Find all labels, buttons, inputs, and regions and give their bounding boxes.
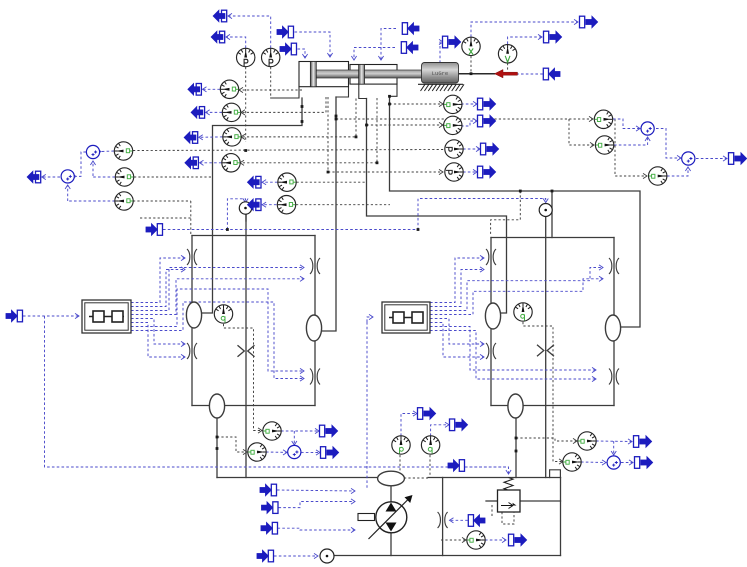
port output row3 [184, 132, 198, 144]
sig port in3 to cyl [378, 29, 396, 61]
sig ctrl1 o8 [131, 302, 304, 381]
gauge mid M2 [277, 196, 295, 214]
sig gauge row4 to out [200, 160, 222, 165]
wire cyl1 right chamber to bridge1 volume L [202, 98, 302, 313]
sig ctrl1 o6 [131, 323, 185, 360]
meas branch to gauge R2 [569, 119, 594, 148]
meas gauge q2 tap [523, 322, 563, 464]
wire bridge2 center feed [545, 216, 547, 478]
valve bridge1 center [238, 345, 255, 357]
port output 2 [211, 31, 225, 43]
sig sum1 to sum2 [72, 152, 86, 179]
sig ctrl2 o2 [430, 267, 484, 307]
sig X gauge to out [471, 19, 578, 37]
gauge bridge2 q [514, 303, 532, 321]
sum junction S4 [682, 152, 695, 165]
meas gauge P2 tap [270, 67, 272, 98]
sig gauge R4 out [463, 169, 477, 174]
meas relief pilot 2 [491, 505, 493, 518]
meas chamber1 to gauge row1 [239, 87, 302, 92]
wire bypass branch [442, 478, 444, 556]
gauge pump q [421, 436, 439, 454]
wire bridge1 bottom rail [192, 405, 315, 407]
port bypass cmd [468, 515, 485, 527]
sig sum1 chain [97, 149, 114, 154]
controller block 1 [82, 300, 131, 333]
sig gauge B2 out [266, 450, 287, 455]
port force input [543, 68, 560, 80]
sig sum6 out [621, 460, 633, 465]
wire relief inlet stub [486, 500, 498, 502]
sig gauge B to sum2 [93, 176, 115, 178]
gauge right R4 [445, 163, 463, 181]
sig bypass gauge out [485, 537, 506, 542]
sig port in2 to cyl [298, 49, 308, 58]
sig gaugeRB out [614, 137, 650, 145]
sig ctrl2 in [367, 314, 373, 322]
gauge right R3 [445, 140, 463, 158]
volume pump top [378, 471, 405, 486]
sig gaugeP1 to port out2 [226, 34, 246, 48]
wire relief tank box [550, 470, 561, 478]
port output row1 [188, 83, 202, 95]
wire cyl2 chamber to bridge2 volume L [367, 99, 507, 314]
gauge row3 [223, 128, 241, 146]
wire bridge2 left rail [490, 238, 492, 406]
sig gauge R5 to sum6 [611, 441, 616, 455]
meas chamber3 to gauge row3 [241, 99, 356, 140]
volume bridge2 tank [508, 394, 523, 418]
sig relief cmd [465, 466, 509, 468]
meas tap right y104 [390, 101, 444, 106]
sig V gauge to out [508, 34, 542, 44]
sig ctrl2 o5 [430, 319, 484, 347]
speed source [320, 549, 334, 563]
wire bridge2 right rail [613, 238, 615, 406]
sum junction S5 [288, 445, 301, 458]
port input 1 [277, 26, 294, 38]
volume bridge2 R [605, 315, 620, 341]
sig ctrl1 in [23, 313, 79, 318]
meas tap right y126 [367, 122, 444, 127]
port pump ctl2 [261, 502, 278, 514]
port gauge R6 sink [247, 199, 261, 211]
gauge pressure P2 [262, 48, 280, 66]
sig port in1 to cyl [295, 32, 333, 57]
sig sum5 out [301, 450, 320, 455]
gauge cluster RA [594, 110, 612, 128]
controller block 2 [382, 302, 430, 333]
sig gauge R1 out [461, 101, 477, 106]
wire tank2 rail [334, 555, 561, 557]
port output R2 [478, 115, 496, 127]
sig gauge row2 to out [206, 110, 222, 115]
gauge left B2 [115, 168, 133, 186]
wire relief tank drop [560, 478, 562, 556]
gauge bridge1 q [214, 305, 232, 323]
wire cyl2 skirt left wing [359, 84, 367, 99]
sig gauge R2 out [461, 118, 477, 126]
port output pump q [450, 419, 468, 431]
meas tank2 tap to gauge R5 [516, 438, 577, 444]
wire rod link [397, 73, 422, 75]
sig gauge R3 out [463, 146, 480, 151]
gauge bottom R6 [563, 453, 581, 471]
port output R5 [634, 436, 652, 448]
sig LuGre to out [439, 39, 443, 63]
port supply input [146, 224, 163, 236]
port output xtop [580, 16, 598, 28]
wire bridge2 tank drop [515, 414, 517, 478]
port output R4 [478, 166, 496, 178]
svg-text:LuGre: LuGre [432, 70, 449, 77]
sig pump gauge q out [431, 422, 449, 436]
port output left sum [27, 171, 41, 183]
port pump ctl1 [260, 484, 277, 496]
port output sum4 [729, 153, 747, 165]
meas bypass tap [441, 537, 466, 542]
port output v [544, 31, 562, 43]
meas gauge P1 tap [245, 67, 247, 142]
meas branch to gauge R3 [615, 119, 647, 179]
wire cyl1 skirt right wing [336, 87, 349, 97]
port gauge R5 sink [247, 176, 261, 188]
port output row2 [191, 106, 205, 118]
gauge right R2 [444, 116, 462, 134]
sig gauge R6b out [581, 460, 606, 465]
sig circle1 branch [227, 199, 248, 230]
sig sum2 to out [42, 174, 60, 179]
sig pump ctl2 [279, 499, 356, 508]
flow source 1 [239, 202, 251, 214]
orifice bridge1 BL [187, 343, 197, 359]
port pump ctl3 [261, 522, 278, 534]
sig sum2 bottom in [65, 185, 70, 201]
sig gauge R5 to out [262, 180, 277, 185]
orifice bypass [438, 512, 448, 528]
meas long line y177 [134, 176, 213, 178]
wire circle source 1 drop [245, 215, 247, 221]
port input 3 [402, 23, 419, 35]
sig V tap [507, 63, 509, 70]
meas long line y218 [140, 217, 191, 219]
sig gauge R6 to out [262, 202, 276, 207]
sig gauge row1 to out [203, 87, 221, 92]
sig ctrl1 o5 [131, 319, 185, 347]
sig ctrl2 o7 [430, 327, 596, 373]
wire bridge1 center feed [245, 215, 247, 478]
port output sum6 [635, 457, 653, 469]
sig gauge row3 to out [199, 135, 223, 140]
sig gauge B1 out [281, 428, 319, 433]
wire pump suction drop [390, 486, 392, 502]
sig pump ctl1 [277, 488, 355, 493]
wire cyl1 skirt left wing [271, 87, 299, 98]
orifice bridge2 BR [609, 369, 619, 385]
gauge right R1 [444, 95, 462, 113]
gauge bottom B2 [248, 443, 266, 461]
gauge pressure P1 [237, 48, 255, 66]
wire rod to force [458, 73, 495, 75]
gauge row2 [222, 103, 240, 121]
LuGre friction block [422, 63, 459, 84]
sig ctrl1 o2 [131, 267, 185, 307]
sig speed in [274, 553, 318, 558]
meas gauge q1 tap [224, 324, 263, 433]
gauge row1 [220, 80, 238, 98]
port output pump p [418, 408, 436, 420]
meas mid M2 feed [296, 204, 390, 206]
gauge bottom B1 [263, 422, 281, 440]
sig ctrl1 o1 [131, 255, 185, 302]
gauge left B3 [115, 192, 133, 210]
port relief cmd input [448, 460, 465, 472]
orifice bridge2 BL [486, 343, 496, 359]
sig ctrl1 o4 [131, 276, 304, 314]
meas bridge2 corner link [491, 191, 521, 236]
sig gaugeRC out [667, 167, 691, 176]
wire relief drain [520, 500, 561, 502]
sig gaugeP2 to port out1 [228, 13, 271, 48]
gauge pump p [392, 436, 410, 454]
sig sum1 bottom in [90, 161, 95, 176]
wire bridge2 supply branch [551, 191, 553, 238]
sig ctrl1 o7 [131, 289, 304, 374]
sig ctrl2 o3 [430, 265, 603, 311]
gauge cluster RB [595, 136, 613, 154]
orifice bridge1 TL [187, 249, 197, 265]
orifice bridge1 TR [310, 258, 320, 274]
meas long line y119 to right cluster [336, 116, 593, 121]
wire tank rail [217, 477, 378, 479]
sig X tap [470, 56, 472, 73]
sig gauge B1 to sum5 [292, 431, 297, 445]
wire tank rail dashed gap [404, 477, 428, 479]
orifice bridge2 TR [609, 258, 619, 274]
port input 4 [401, 42, 418, 54]
wire bridge2 bottom rail [491, 405, 614, 407]
sig force in [517, 73, 543, 75]
sig bypass cmd [450, 518, 468, 523]
sig pump ctl3 [278, 527, 356, 532]
orifice bridge2 TL [486, 249, 496, 265]
wire cyl2 rod chamber to bridge2 volume R [390, 96, 641, 327]
gauge bypass [467, 531, 485, 549]
ground hatching [418, 84, 464, 91]
flow source 2 [539, 204, 552, 217]
port output B1 [320, 425, 338, 437]
gauge position X [462, 37, 480, 55]
port output R3 [481, 143, 499, 155]
port output 1 [213, 10, 227, 22]
volume bridge1 tank [209, 394, 224, 418]
relief valve [498, 478, 521, 513]
meas tap vert x377 [376, 98, 378, 163]
meas tank tap to gauge B2 [217, 437, 247, 455]
port output sum5 [321, 447, 339, 459]
gauge left B1 [114, 142, 132, 160]
hydraulic cylinder tandem assembly [299, 62, 422, 87]
port input 2 [280, 43, 297, 55]
sig gauge R5 out [596, 439, 632, 444]
sig command branch [45, 316, 512, 474]
wire bridge1 right rail [314, 236, 316, 406]
sum junction S6 [607, 456, 620, 469]
wire bridge1 tank drop [216, 414, 218, 478]
sum junction S2 [61, 170, 74, 183]
sig ctrl2 o4 [430, 276, 603, 314]
port output x [443, 36, 461, 48]
variable displacement pump [358, 495, 413, 539]
wire pump to tank2 [390, 533, 392, 556]
volume bridge1 L [186, 302, 201, 328]
sig ctrl2 o6 [430, 323, 484, 360]
gauge mid M1 [278, 173, 296, 191]
wire tank rail right [428, 477, 561, 479]
port output row4 [185, 157, 199, 169]
sig sum4 out [696, 156, 727, 161]
sig gaugeRA out [613, 119, 640, 131]
sig ctrl1 o3 [131, 265, 304, 311]
sum junction S1 [86, 145, 99, 158]
gauge cluster RC [649, 167, 667, 185]
port ctrl1 input [6, 310, 23, 322]
sig ctrl2 o8 [430, 331, 596, 382]
meas chamber4 to gauge row4 [240, 160, 377, 165]
meas pump gauge q tap [429, 455, 431, 476]
sig port in4 to cyl [351, 48, 395, 61]
sig long supply line [163, 199, 548, 230]
orifice bridge1 BR [310, 369, 320, 385]
gauge bottom R5 [578, 432, 596, 450]
wire bridge2 top rail [491, 237, 614, 239]
meas pump gauge p tap [399, 455, 401, 476]
wire cyl2 skirt right wing [390, 84, 398, 96]
gauge row4 [222, 154, 240, 172]
gauge velocity V [498, 45, 516, 63]
meas mid M1 feed [297, 181, 367, 183]
sig pump gauge p out [401, 411, 417, 436]
valve bridge2 center [537, 345, 554, 357]
meas tap right y172 [328, 169, 443, 174]
wire cyl1 cap chamber to bridge1 volume R [322, 97, 336, 331]
volume bridge1 R [306, 315, 321, 341]
sig sum3 to sum4 [656, 129, 681, 161]
volume bridge2 L [485, 303, 500, 329]
sig ctrl2 in drop [366, 322, 368, 490]
meas tap vert x328 [327, 97, 329, 172]
force input red arrow [495, 70, 518, 78]
wire bridge1 left rail [191, 236, 193, 406]
sig gauge C line [68, 200, 115, 202]
wire bridge1 top rail [192, 235, 315, 237]
meas chamber2 to gauge row2 [241, 97, 326, 115]
sum junction S3 [641, 122, 654, 135]
meas long line y201 [133, 200, 191, 202]
meas long line y151 [133, 150, 444, 151]
port speed input [257, 550, 274, 562]
port output bypass [509, 534, 527, 546]
meas bridge feed tap [190, 201, 192, 235]
sig ctrl2 o1 [430, 255, 484, 302]
meas relief pilot [502, 512, 514, 524]
port output R1 [478, 98, 496, 110]
